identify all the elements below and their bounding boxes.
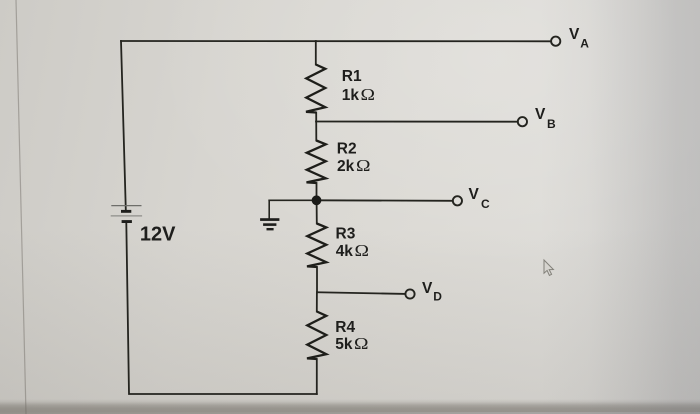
svg-text:V: V <box>535 106 546 123</box>
svg-text:2k: 2k <box>337 158 355 175</box>
svg-text:A: A <box>580 36 589 50</box>
svg-text:V: V <box>422 280 433 297</box>
svg-text:Ω: Ω <box>355 241 370 260</box>
svg-text:D: D <box>433 290 442 304</box>
svg-text:R3: R3 <box>336 225 356 242</box>
svg-text:R1: R1 <box>342 68 362 85</box>
svg-text:R4: R4 <box>335 319 355 336</box>
svg-text:1k: 1k <box>342 87 360 104</box>
svg-text:Ω: Ω <box>356 156 371 175</box>
svg-text:12V: 12V <box>140 224 176 246</box>
svg-text:4k: 4k <box>336 243 354 260</box>
svg-text:5k: 5k <box>335 336 353 353</box>
svg-text:R2: R2 <box>337 140 357 157</box>
svg-text:V: V <box>569 26 580 43</box>
svg-text:Ω: Ω <box>361 85 376 104</box>
svg-text:Ω: Ω <box>354 334 369 353</box>
svg-text:B: B <box>547 117 556 131</box>
svg-text:C: C <box>481 197 490 211</box>
svg-text:V: V <box>469 186 480 203</box>
